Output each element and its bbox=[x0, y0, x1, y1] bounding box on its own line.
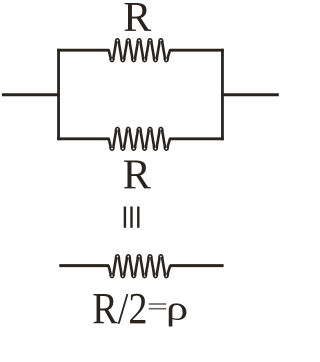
svg-text:ρ: ρ bbox=[166, 290, 188, 327]
wire: left external lead bbox=[2, 93, 59, 96]
resistor R (top branch) bbox=[109, 39, 170, 61]
wire: equivalent resistor right lead bbox=[170, 264, 224, 267]
resistor R (bottom branch) bbox=[109, 128, 170, 150]
svg-text:R: R bbox=[123, 0, 151, 41]
svg-text:R/2: R/2 bbox=[92, 283, 147, 332]
resistor R/2 (equivalent) bbox=[109, 255, 170, 277]
wire: bottom branch left segment bbox=[57, 137, 109, 140]
wire: top branch right segment bbox=[170, 49, 224, 52]
wire: top branch left segment bbox=[57, 49, 109, 52]
wire: bottom branch right segment bbox=[170, 137, 224, 140]
wire: right vertical branch bbox=[221, 49, 224, 140]
equals sign of label bbox=[149, 303, 166, 309]
svg-text:R: R bbox=[123, 153, 151, 199]
wire: left vertical branch bbox=[57, 49, 60, 140]
equivalence symbol (rotated triple bar) bbox=[124, 207, 140, 228]
wire: equivalent resistor left lead bbox=[59, 264, 109, 267]
wire: right external lead bbox=[222, 93, 278, 96]
